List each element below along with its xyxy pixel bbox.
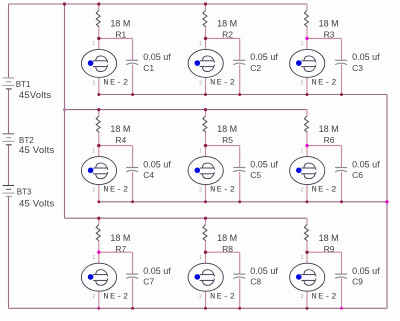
wire: node 9 to C9 horizontal: [307, 251, 342, 253]
junction: lamp 8 bottom on bus: [204, 307, 207, 310]
junction: C9 bottom on bus: [340, 307, 343, 310]
svg-text:0.05 uf: 0.05 uf: [143, 159, 171, 169]
resistor R1 18 M: [96, 10, 130, 39]
svg-text:BT2: BT2: [19, 136, 34, 145]
junction: C3 bottom on bus: [340, 93, 343, 96]
wire: left battery chain vertical (top segment to BT1): [8, 4, 10, 78]
wire: lamp 9 top lead: [306, 252, 308, 263]
svg-text:18 M: 18 M: [217, 233, 237, 243]
battery BT3 45 Volts: [3, 186, 55, 210]
node 3: junction dot at R3/lamp/C3 tie point: [305, 37, 308, 40]
svg-text:NE-2: NE-2: [210, 291, 236, 301]
neon lamp NE-2 #5: [188, 148, 236, 194]
svg-text:2: 2: [92, 294, 95, 300]
svg-text:18 M: 18 M: [110, 233, 130, 243]
wire: R4 bottom stub to node 4: [98, 132, 100, 145]
junction: R5 top on bus: [204, 108, 207, 111]
junction: lamp 9 bottom on bus: [306, 307, 309, 310]
wire: R9 top stub: [306, 218, 308, 224]
svg-text:R5: R5: [222, 135, 233, 145]
capacitor C5 0.05 uf: [233, 159, 278, 180]
svg-text:2: 2: [92, 80, 95, 86]
wire: top supply bus: [9, 3, 308, 5]
capacitor C3 0.05 uf: [335, 52, 380, 73]
svg-text:R1: R1: [115, 30, 126, 40]
wire: C2 bottom lead: [239, 65, 241, 95]
svg-text:1: 1: [199, 148, 202, 154]
svg-text:R9: R9: [324, 244, 335, 254]
resistor R5 18 M: [203, 116, 237, 145]
node 6: junction dot at R6/lamp/C6 tie point: [305, 144, 308, 147]
wire: C5 bottom lead: [239, 172, 241, 202]
wire: second vertical feeder x=64.5 from top bus to row-3 bus: [64, 4, 66, 218]
wire: lamp 6 top lead: [306, 146, 308, 157]
wire: C8 top lead: [239, 252, 241, 274]
svg-text:R8: R8: [222, 244, 233, 254]
capacitor C6 0.05 uf: [335, 159, 380, 180]
capacitor C8 0.05 uf: [233, 266, 278, 287]
wire: row-2 top bus: [65, 109, 308, 111]
junction: lamp 7 bottom on bus: [97, 307, 100, 310]
junction: lamp 1 bottom on bus: [97, 93, 100, 96]
svg-text:2: 2: [199, 80, 202, 86]
svg-text:NE-2: NE-2: [210, 78, 236, 88]
wire: C1 top lead: [132, 38, 134, 60]
wire: lamp 1 bottom lead: [98, 77, 100, 94]
wire: row-2 bottom bus: [99, 201, 387, 203]
svg-text:NE-2: NE-2: [210, 185, 236, 195]
svg-text:0.05 uf: 0.05 uf: [250, 52, 278, 62]
node 9: junction dot at R9/lamp/C9 tie point: [305, 251, 308, 254]
svg-text:0.05 uf: 0.05 uf: [352, 159, 380, 169]
svg-text:C7: C7: [143, 277, 154, 287]
svg-text:C2: C2: [250, 63, 261, 73]
junction: right vertical at row-2 bottom bus: [385, 200, 388, 203]
wire: R2 bottom stub to node 2: [205, 27, 207, 39]
junction: lamp 4 bottom on bus: [97, 200, 100, 203]
neon lamp NE-2 #4: [81, 148, 129, 194]
wire: C5 top lead: [239, 146, 241, 168]
resistor R7 18 M: [96, 225, 130, 254]
svg-text:1: 1: [199, 255, 202, 261]
wire: C6 top lead: [341, 146, 343, 168]
wire: node 7 to C7 horizontal: [99, 251, 133, 253]
capacitor C4 0.05 uf: [126, 159, 171, 180]
wire: node 3 to C3 horizontal: [307, 37, 342, 39]
wire: row-1 bottom bus: [99, 94, 387, 96]
wire: lamp 5 top lead: [205, 146, 207, 157]
wire: bottom return bus: [9, 307, 388, 309]
wire: node 6 to C6 horizontal: [307, 145, 342, 147]
neon lamp NE-2 #2: [188, 41, 236, 87]
wire: node 4 to C4 horizontal: [99, 145, 133, 147]
resistor R4 18 M: [96, 116, 130, 145]
capacitor C9 0.05 uf: [335, 266, 380, 287]
neon lamp NE-2 #8: [188, 255, 236, 301]
wire: C9 bottom lead: [341, 278, 343, 308]
wire: C3 bottom lead: [341, 65, 343, 95]
svg-text:1: 1: [301, 41, 304, 47]
junction: lamp 6 bottom on bus: [306, 200, 309, 203]
svg-text:R2: R2: [222, 30, 233, 40]
svg-text:BT3: BT3: [17, 188, 32, 197]
wire: battery chain segment BT2 to BT3: [8, 145, 10, 186]
svg-text:18 M: 18 M: [319, 19, 339, 29]
node 1: junction dot at R1/lamp/C1 tie point: [97, 37, 100, 40]
capacitor C1 0.05 uf: [126, 52, 171, 73]
wire: lamp 9 bottom lead: [306, 291, 308, 308]
wire: C6 bottom lead: [341, 172, 343, 202]
svg-text:2: 2: [199, 188, 202, 194]
neon lamp NE-2 #7: [81, 255, 129, 301]
svg-text:45Volts: 45Volts: [19, 90, 52, 101]
svg-text:2: 2: [301, 80, 304, 86]
junction: R8 top on bus: [204, 217, 207, 220]
wire: lamp 8 top lead: [205, 252, 207, 263]
svg-text:0.05 uf: 0.05 uf: [143, 52, 171, 62]
junction: C2 bottom on bus: [238, 93, 241, 96]
battery BT2 45 Volts: [3, 134, 55, 156]
wire: R8 top stub: [205, 218, 207, 224]
wire: R6 bottom stub to node 6: [306, 132, 308, 145]
capacitor C7 0.05 uf: [126, 266, 171, 287]
svg-text:NE-2: NE-2: [103, 78, 129, 88]
svg-text:18 M: 18 M: [217, 19, 237, 29]
svg-text:NE-2: NE-2: [103, 291, 129, 301]
junction: C7 bottom on bus: [131, 307, 134, 310]
wire: C4 top lead: [132, 146, 134, 168]
resistor R6 18 M: [304, 116, 338, 145]
neon lamp NE-2 #9: [290, 255, 338, 301]
svg-text:18 M: 18 M: [110, 124, 130, 134]
junction: R7 top on bus: [97, 217, 100, 220]
wire: R5 bottom stub to node 5: [205, 132, 207, 145]
svg-text:1: 1: [92, 255, 95, 261]
svg-text:1: 1: [301, 148, 304, 154]
junction: C1 bottom on bus: [131, 93, 134, 96]
wire: R3 bottom stub to node 3: [306, 27, 308, 39]
junction: feeder x=64.5 at top bus: [63, 2, 66, 5]
wire: R1 bottom stub to node 1: [98, 27, 100, 39]
wire: lamp 1 top lead: [98, 38, 100, 49]
wire: lamp 3 top lead: [306, 38, 308, 49]
svg-text:0.05 uf: 0.05 uf: [352, 52, 380, 62]
wire: lamp 2 top lead: [205, 38, 207, 49]
svg-text:1: 1: [92, 148, 95, 154]
wire: R2 top stub: [205, 4, 207, 10]
node 5: junction dot at R5/lamp/C5 tie point: [204, 144, 207, 147]
svg-text:C5: C5: [250, 170, 261, 180]
capacitor C2 0.05 uf: [233, 52, 278, 73]
junction: C8 bottom on bus: [238, 307, 241, 310]
node 2: junction dot at R2/lamp/C2 tie point: [204, 37, 207, 40]
wire: lamp 4 top lead: [98, 146, 100, 157]
wire: lamp 7 top lead: [98, 252, 100, 263]
wire: lamp 7 bottom lead: [98, 291, 100, 308]
resistor R8 18 M: [203, 225, 237, 254]
wire: lamp 5 bottom lead: [205, 185, 207, 202]
wire: C7 bottom lead: [132, 278, 134, 308]
svg-text:BT1: BT1: [16, 80, 31, 89]
wire: C3 top lead: [341, 38, 343, 60]
wire: R5 top stub: [205, 110, 207, 116]
svg-text:0.05 uf: 0.05 uf: [143, 266, 171, 276]
svg-text:18 M: 18 M: [319, 124, 339, 134]
svg-text:0.05 uf: 0.05 uf: [352, 266, 380, 276]
battery BT1 45 Volts: [3, 78, 52, 101]
wire: R1 top stub: [98, 4, 100, 10]
wire: R3 top stub: [306, 4, 308, 10]
wire: node 1 to C1 horizontal: [99, 37, 133, 39]
resistor R3 18 M: [304, 10, 338, 39]
wire: lamp 6 bottom lead: [306, 185, 308, 202]
svg-text:2: 2: [92, 188, 95, 194]
svg-text:R6: R6: [324, 135, 335, 145]
junction: C4 bottom on bus: [131, 200, 134, 203]
wire: lamp 2 bottom lead: [205, 77, 207, 94]
junction: lamp 5 bottom on bus: [204, 200, 207, 203]
svg-text:18 M: 18 M: [319, 233, 339, 243]
svg-text:0.05 uf: 0.05 uf: [250, 159, 278, 169]
junction: feeder x=64.5 at row-2 top bus: [63, 108, 66, 111]
resistor R9 18 M: [304, 225, 338, 254]
svg-text:2: 2: [199, 294, 202, 300]
wire: R7 top stub: [98, 218, 100, 224]
wire: node 8 to C8 horizontal: [206, 251, 240, 253]
junction: R1 top on bus: [97, 2, 100, 5]
svg-text:R4: R4: [115, 135, 126, 145]
wire: lamp 3 bottom lead: [306, 77, 308, 94]
svg-text:18 M: 18 M: [110, 19, 130, 29]
svg-text:45 Volts: 45 Volts: [19, 145, 54, 156]
neon lamp NE-2 #1: [81, 41, 129, 87]
wire: R7 bottom stub to node 7: [98, 241, 100, 252]
junction: lamp 3 bottom on bus: [306, 93, 309, 96]
svg-text:1: 1: [199, 41, 202, 47]
svg-text:NE-2: NE-2: [312, 78, 338, 88]
neon lamp NE-2 #6: [290, 148, 338, 194]
neon lamp NE-2 #3: [290, 41, 338, 87]
wire: R9 bottom stub to node 9: [306, 241, 308, 252]
svg-text:1: 1: [92, 41, 95, 47]
wire: right return vertical: [386, 95, 388, 309]
wire: lamp 4 bottom lead: [98, 185, 100, 202]
wire: node 5 to C5 horizontal: [206, 145, 240, 147]
svg-text:C9: C9: [352, 277, 363, 287]
wire: C4 bottom lead: [132, 172, 134, 202]
wire: C2 top lead: [239, 38, 241, 60]
svg-text:C6: C6: [352, 170, 363, 180]
wire: lamp 8 bottom lead: [205, 291, 207, 308]
svg-text:1: 1: [301, 255, 304, 261]
node 7: junction dot at R7/lamp/C7 tie point: [97, 251, 100, 254]
svg-text:0.05 uf: 0.05 uf: [250, 266, 278, 276]
svg-text:NE-2: NE-2: [103, 185, 129, 195]
wire: R8 bottom stub to node 8: [205, 241, 207, 252]
svg-text:C8: C8: [250, 277, 261, 287]
wire: R6 top stub: [306, 110, 308, 116]
wire: C7 top lead: [132, 252, 134, 274]
wire: C1 bottom lead: [132, 65, 134, 95]
svg-text:C4: C4: [143, 170, 154, 180]
svg-text:NE-2: NE-2: [312, 291, 338, 301]
junction: R4 top on bus: [97, 108, 100, 111]
svg-text:C3: C3: [352, 63, 363, 73]
resistor R2 18 M: [203, 10, 237, 39]
wire: R4 top stub: [98, 110, 100, 116]
junction: C5 bottom on bus: [238, 200, 241, 203]
svg-text:18 M: 18 M: [217, 124, 237, 134]
svg-text:R7: R7: [115, 244, 126, 254]
svg-text:2: 2: [301, 188, 304, 194]
junction: R2 top on bus: [204, 2, 207, 5]
junction: C6 bottom on bus: [340, 200, 343, 203]
svg-text:45 Volts: 45 Volts: [19, 198, 54, 209]
junction: lamp 2 bottom on bus: [204, 93, 207, 96]
node 8: junction dot at R8/lamp/C8 tie point: [204, 251, 207, 254]
wire: C9 top lead: [341, 252, 343, 274]
wire: battery chain segment BT3 to bottom bus: [8, 196, 10, 308]
svg-text:C1: C1: [143, 63, 154, 73]
wire: node 2 to C2 horizontal: [206, 37, 240, 39]
wire: row-3 top bus: [65, 217, 308, 219]
svg-text:2: 2: [301, 294, 304, 300]
wire: C8 bottom lead: [239, 278, 241, 308]
node 4: junction dot at R4/lamp/C4 tie point: [97, 144, 100, 147]
svg-text:NE-2: NE-2: [312, 185, 338, 195]
svg-text:R3: R3: [324, 30, 335, 40]
wire: battery chain segment BT1 to BT2: [8, 89, 10, 134]
